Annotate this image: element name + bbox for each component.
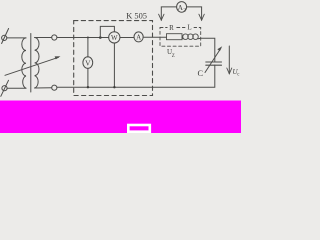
node: W voltage tap [99, 36, 102, 39]
wire R to L [182, 37, 183, 39]
wire X2 to primary bottom [7, 87, 26, 89]
transformer T1 core [30, 34, 32, 93]
wire A2 left lead [161, 7, 176, 20]
node: V branch bottom junction [87, 86, 89, 88]
svg-text:R: R [169, 24, 174, 32]
svg-text:L: L [187, 24, 191, 32]
variable capacitor arrow [205, 46, 222, 72]
svg-text:V: V [85, 58, 91, 67]
resistor R [167, 34, 183, 40]
terminal on top wire [52, 35, 57, 40]
wire V branch lower [87, 68, 89, 87]
terminal on bottom wire [52, 85, 57, 90]
wire A2 right lead [187, 7, 202, 20]
wire L to output [198, 38, 215, 62]
svg-text:A: A [136, 34, 141, 42]
wire secondary top to terminal [35, 37, 52, 39]
wire terminal to W meter (top rail left) [57, 37, 109, 39]
svg-text:W: W [111, 34, 118, 42]
node: V branch tap [87, 37, 89, 39]
label U_c [233, 68, 240, 78]
capacitor C plates [206, 62, 222, 65]
inductor L [183, 34, 199, 40]
voltmeter V [83, 57, 93, 69]
terminal X2 (bottom-left plug) [1, 80, 9, 96]
dashed box Z (R-L load) [160, 28, 201, 47]
dashed box K505 [74, 21, 153, 96]
voltage arrow U_c [227, 46, 232, 74]
node: W bottom junction [113, 86, 115, 88]
wire X1 to primary top [7, 37, 26, 39]
wire W to bottom rail [113, 43, 115, 87]
label mask R [168, 23, 176, 31]
wire secondary bottom to terminal [35, 87, 52, 89]
label U_Z [167, 48, 175, 59]
label mask L [185, 23, 193, 31]
terminal X1 (top-left plug) [2, 29, 9, 44]
svg-text:c: c [237, 73, 239, 78]
svg-text:K 505: K 505 [126, 12, 147, 21]
arrow A2 right (points down) [199, 14, 204, 20]
magenta footer band [0, 101, 241, 134]
svg-text:C: C [198, 69, 204, 78]
arrow A2 left (points down) [159, 14, 164, 20]
wire W to A [120, 37, 134, 39]
wire W voltage bracket [100, 26, 114, 37]
wattmeter W [109, 32, 120, 43]
wire A to RL box [143, 36, 166, 38]
white outlined box in footer [128, 125, 150, 132]
transformer T1 secondary winding [35, 38, 39, 89]
svg-text:Z: Z [172, 54, 175, 59]
ammeter A2 (plug-in, above) [177, 2, 187, 14]
ammeter A [134, 32, 143, 42]
bottom rail wire [57, 65, 215, 87]
wire V branch upper [87, 38, 89, 58]
variac arrow across transformer [5, 56, 61, 75]
transformer T1 primary winding [22, 38, 26, 88]
